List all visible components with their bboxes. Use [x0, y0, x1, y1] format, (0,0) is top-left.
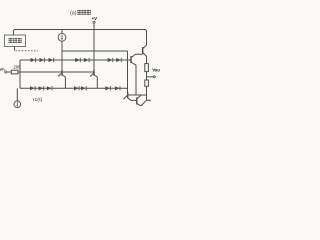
svg-text:(a): (a) — [70, 10, 77, 16]
svg-text:Vout: Vout — [152, 68, 160, 73]
svg-text:I1(t): I1(t) — [33, 97, 43, 103]
svg-text:200: 200 — [14, 65, 22, 70]
svg-text:+V: +V — [92, 16, 98, 21]
svg-text:Vin: Vin — [0, 68, 5, 72]
